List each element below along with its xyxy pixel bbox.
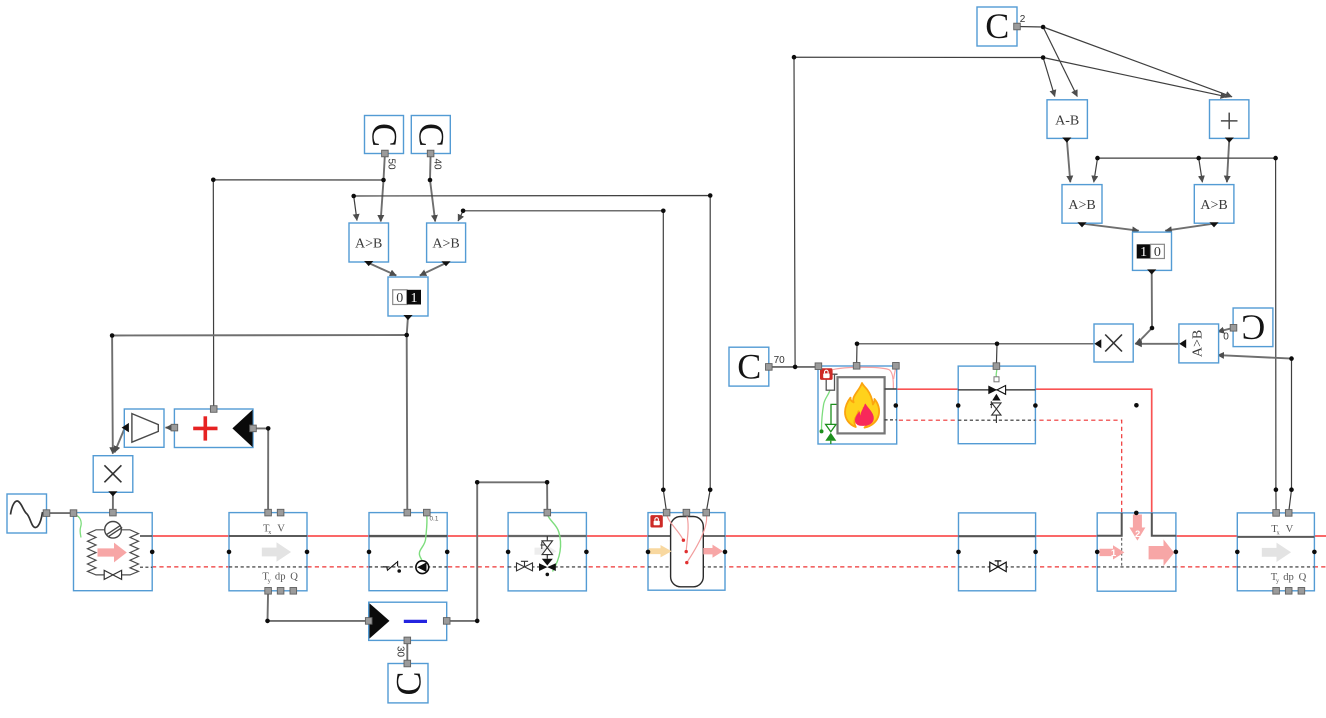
wire switch U5 output branch to multiplier U8 [112, 335, 407, 454]
svg-text:40: 40 [432, 159, 443, 171]
node C4 junction B [1041, 55, 1046, 60]
wire subtractor U11 output to comparator U13 input A [1067, 139, 1071, 183]
constant C6 value 0 (rotated) [1230, 308, 1273, 348]
svg-text:C: C [365, 123, 405, 147]
node boiler control branch [855, 342, 860, 347]
flow connection PI2 out [1312, 550, 1317, 555]
svg-text:A>B: A>B [1200, 198, 1227, 213]
constant C3 value 30 [388, 660, 428, 703]
svg-text:A>B: A>B [355, 237, 382, 252]
flow connection TP1 in [1095, 550, 1100, 555]
wire switch U5 output to pump P1 control [407, 316, 408, 512]
svg-text:dp: dp [1283, 572, 1294, 583]
node adder right port branch [266, 426, 271, 431]
flow connection V1 in [506, 550, 511, 555]
node comparator U17 input bend [1289, 356, 1294, 361]
wire setpoint node N2 to adder U12 input A [1043, 58, 1227, 97]
svg-text:C: C [411, 123, 451, 147]
node switch output branch [404, 333, 409, 338]
flow connection V3 in [956, 550, 961, 555]
svg-text:1: 1 [411, 291, 418, 306]
node sensor bus left [1095, 156, 1100, 161]
wire adder U7 output to gain U9 input [166, 427, 175, 429]
multiplier U16 (x) [1094, 324, 1133, 362]
flow connection T1 out [723, 550, 728, 555]
switch U15 (1|0) [1133, 232, 1172, 274]
svg-text:A>B: A>B [432, 237, 459, 252]
wire adder U12 output to comparator U14 input B [1227, 139, 1229, 183]
wire constant C4(2) to adder U12 input B [1043, 27, 1232, 97]
wire switch U15 output to multiplier U16 [1135, 270, 1152, 343]
constant C1 value 50 [365, 116, 405, 157]
svg-text:C: C [388, 671, 428, 695]
svg-text:C: C [737, 347, 761, 387]
subtractor U10 (minus) [365, 602, 450, 644]
wire pipe PI2 sensor bus horizontal [1098, 157, 1276, 159]
svg-text:0: 0 [1154, 245, 1161, 260]
node pipe PI2 riser bend B [1289, 487, 1294, 492]
node N1 (C1 branch) [381, 178, 386, 183]
node C4 output junction A [1041, 25, 1046, 30]
comparator U4 A>B [427, 223, 466, 266]
svg-text:70: 70 [774, 355, 786, 366]
flow connection B1 out [894, 403, 899, 408]
node tank-top riser corner [708, 193, 713, 198]
wire comparator U13 output to switch U15 input 1 [1082, 224, 1139, 231]
comparator U14 A>B [1194, 185, 1234, 228]
pipe PI2 (T,V / T,dp,Q) [1237, 510, 1314, 594]
node bend C2 wire [428, 178, 433, 183]
wire comparator U17 output to multiplier U16 [1135, 343, 1179, 345]
comparator U17 B<A (rotated) [1179, 324, 1219, 363]
subtractor U11 A-B [1047, 100, 1087, 143]
node sensor bus right [1273, 156, 1278, 161]
flow connection V1 out [584, 550, 589, 555]
valve V1 (tempering valve) [508, 509, 586, 591]
constant C4 value 2 [977, 6, 1020, 46]
svg-text:y: y [268, 578, 271, 584]
valve V3 (bypass valve) [959, 513, 1036, 591]
svg-text:V: V [1286, 524, 1294, 535]
svg-text:0.1: 0.1 [430, 516, 439, 523]
wire C1(50) to comparator U3 input B [381, 154, 385, 222]
svg-text:0: 0 [396, 291, 403, 306]
flow connection T1 in [646, 550, 651, 555]
wire comparator U14 output to switch U15 input 2 [1165, 224, 1214, 231]
node switch branch corner [110, 333, 115, 338]
svg-text:2: 2 [1135, 529, 1140, 540]
node tank-top sensor bend [351, 194, 356, 199]
wire tank T1 bottom sensor to comparator U4 input B [458, 211, 666, 513]
red supply pipe main row [152, 535, 1326, 537]
flow connection PI1 in [227, 550, 232, 555]
svg-text:x: x [1277, 530, 1280, 536]
flow connection V2 in [956, 403, 961, 408]
red supply pipe boiler loop [884, 389, 1152, 514]
pump P1 [369, 509, 447, 590]
tee piece TP1 [1097, 513, 1176, 591]
red return pipe main row (dashed) [152, 566, 1326, 568]
node N2 boiler setpoint junction [793, 365, 798, 370]
red return pipe boiler loop (dashed) [884, 420, 1122, 514]
storage tank T1 [648, 509, 725, 590]
wire signal generator S1 to heat pump HP1 [47, 512, 74, 514]
wire tank T1 top sensor to comparator U3 input A [354, 196, 711, 513]
wire gain U9 output to multiplier U8 input [115, 429, 125, 453]
comparator U3 A>B [349, 223, 389, 266]
signal generator S1 (sine) [7, 494, 50, 533]
svg-text:1: 1 [1111, 548, 1117, 559]
pipe PI1 (T,V / T,dp,Q) [229, 509, 307, 594]
node subtractor input corner [265, 619, 270, 624]
node valve control corner A [475, 480, 480, 485]
node sensor bus mid [1196, 156, 1201, 161]
node valve control corner B [545, 480, 550, 485]
node switch U15 output bend [1150, 326, 1155, 331]
flow connection P1 out [445, 550, 450, 555]
switch U5 (0|1) [388, 277, 428, 320]
flow connection PI2 in [1235, 550, 1240, 555]
wire C2(40) to comparator U4 input A [430, 154, 435, 222]
svg-text:A>B: A>B [1068, 198, 1095, 213]
svg-text:y: y [1276, 579, 1279, 585]
boiler B1 [815, 363, 899, 445]
svg-text:Q: Q [290, 572, 298, 583]
adder U7 (+) [171, 406, 256, 448]
adder U12 (+) [1210, 100, 1249, 143]
svg-text:A-B: A-B [1055, 113, 1079, 128]
node pipe PI2 riser bend A [1274, 487, 1279, 492]
node tee top connection [1134, 511, 1139, 516]
svg-text:dp: dp [275, 572, 286, 583]
svg-text:1: 1 [1140, 245, 1147, 260]
wire bus to comparator U13 input B [1094, 158, 1098, 182]
comparator U13 A>B [1062, 185, 1102, 228]
wire subtractor U10 to constant C3(30) [406, 640, 408, 663]
junction node dots [110, 25, 1317, 624]
node bend adder branch [211, 178, 216, 183]
flow connection PI1 out [305, 550, 310, 555]
flow connection V3 out [1033, 550, 1038, 555]
wire bus to comparator U14 input A [1199, 158, 1203, 182]
svg-text:Q: Q [1299, 572, 1307, 583]
svg-text:2: 2 [1020, 14, 1026, 25]
wire setpoint node N2 to subtractor U11 input A [794, 57, 1055, 367]
svg-text:C: C [1241, 308, 1265, 348]
wire adder U7 right port to pipe PI1 sensor [252, 428, 268, 512]
wire multiplier U16 output to boiler B1 and valve V2 controls [857, 344, 1094, 366]
svg-text:0: 0 [1223, 332, 1229, 343]
node tank-bottom riser corner [661, 209, 666, 214]
svg-text:C: C [985, 6, 1009, 46]
wire pipe PI2 sensor riser [1275, 158, 1278, 512]
heat pump HP1 [70, 509, 152, 590]
wire node N1 branch to adder U7 top input [213, 180, 383, 409]
node tank-bottom sensor bend [461, 209, 466, 214]
node hidden link bend [1134, 403, 1139, 408]
svg-text:A>B: A>B [1191, 330, 1206, 357]
wire pipe PI2 second sensor to comparator U17 input A [1218, 355, 1292, 512]
valve V2 (boiler loop valve) [958, 363, 1035, 444]
flow connection HP1 out [150, 550, 155, 555]
svg-text:50: 50 [386, 159, 397, 171]
constant C5 value 70 [729, 347, 772, 387]
flow connection V2 out [1033, 403, 1038, 408]
flow connection P1 in [367, 550, 372, 555]
node subtractor output corner [475, 619, 480, 624]
node setpoint riser corner [792, 55, 797, 60]
gain U9 [122, 409, 164, 447]
node tank port A bend [661, 488, 666, 493]
wire subtractor U10 output to valve V1 control [447, 482, 548, 621]
node valve V2 control branch [995, 342, 1000, 347]
wire pipe PI1 outlet sensor to subtractor U10 input [268, 591, 369, 621]
flow connection TP1 out [1174, 550, 1179, 555]
node tank port B bend [708, 488, 713, 493]
wire constant C6(0) to comparator U17 input B [1218, 328, 1234, 332]
svg-text:30: 30 [395, 646, 406, 658]
constant C2 value 40 [411, 116, 451, 157]
wire multiplier U8 output to heat pump HP1 control [112, 494, 114, 512]
svg-text:V: V [277, 524, 285, 535]
wire constant C5(70) to boiler B1 setpoint [769, 366, 818, 368]
multiplier U8 (x) [93, 456, 133, 497]
wire constant C4(2) to subtractor U11 input B [1017, 27, 1077, 97]
wire comparator U4 output to switch U5 input 2 [420, 263, 446, 276]
wire comparator U3 output to switch U5 input 1 [369, 263, 397, 276]
